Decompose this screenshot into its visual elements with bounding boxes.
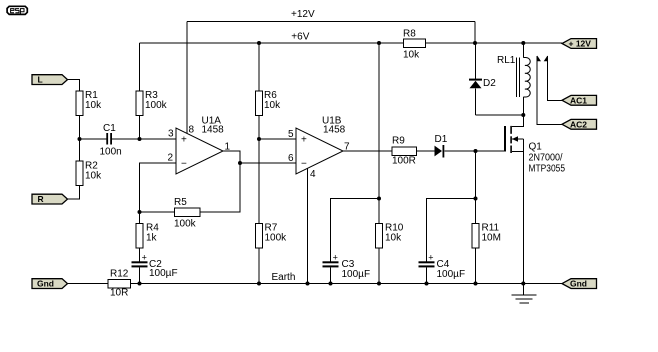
svg-text:10k: 10k — [385, 233, 402, 244]
junction rail R7 — [257, 282, 261, 286]
wire L to R1 top — [68, 80, 80, 92]
svg-text:1458: 1458 — [202, 125, 225, 136]
resistor R2 — [76, 161, 102, 186]
svg-text:4: 4 — [310, 169, 316, 180]
svg-text:R5: R5 — [174, 197, 187, 208]
wire R1 bottom to input node — [79, 116, 81, 140]
junction pin3 node C1/R3 — [138, 137, 142, 141]
junction rail R10 — [377, 282, 381, 286]
wire R11 node to R11 top — [475, 199, 477, 224]
junction C4/R11 — [474, 197, 478, 201]
capacitor C4 — [419, 199, 476, 281]
wire C2 bottom to ground rail — [139, 267, 141, 283]
svg-text:+: + — [428, 253, 433, 263]
wire U1A pin8 supply feed — [186, 22, 188, 134]
junction pin5/R6/R7 — [257, 137, 261, 141]
wire D1 cathode to gate node — [444, 150, 475, 152]
wire pin3 node to U1A — [140, 138, 177, 140]
wire +12V drop to R8 right node — [474, 22, 476, 44]
svg-text:+: + — [142, 253, 147, 263]
svg-text:100µF: 100µF — [149, 268, 178, 279]
wire R8 right lead to +12V node — [426, 42, 476, 44]
op-amp U1B — [296, 116, 346, 175]
junction U1A out/pin6 — [238, 161, 242, 165]
svg-text:+6V: +6V — [291, 32, 309, 43]
wire R6 bottom to pin5 node — [258, 116, 260, 140]
resistor R9 — [392, 136, 417, 167]
resistor R6 — [256, 90, 282, 116]
connector Gnd right — [562, 279, 597, 289]
wire ground rail main — [131, 283, 563, 285]
diode D2 — [469, 43, 496, 115]
wire +6V to R6 top — [258, 43, 260, 91]
connector +12V right — [562, 39, 597, 49]
wire R7 bottom to ground rail — [258, 248, 260, 284]
svg-text:100R: 100R — [392, 156, 416, 167]
wire output node to U1B pin6 — [240, 162, 296, 164]
svg-text:+: + — [301, 135, 307, 146]
wire feedback node down to R4 — [139, 212, 141, 224]
wire input node to R2 top — [79, 139, 81, 161]
svg-text:8: 8 — [189, 125, 195, 136]
wire +12V node to +12V connector — [475, 42, 562, 44]
svg-text:D1: D1 — [435, 134, 448, 145]
junction D1/gate/R11 — [474, 149, 478, 153]
wire ground rail left (Gnd to R12) — [68, 283, 109, 285]
capacitor C1 — [100, 123, 122, 158]
wire gate node to Q1 gate — [476, 150, 505, 152]
resistor R8 — [403, 29, 426, 61]
junction rail C2 — [138, 282, 142, 286]
wire R11 bottom to ground rail — [475, 248, 477, 284]
wire R10 bottom to ground rail — [378, 248, 380, 284]
svg-text:2: 2 — [168, 153, 174, 164]
relay RL1 coil — [497, 43, 530, 115]
svg-text:−: − — [181, 159, 187, 170]
svg-text:10k: 10k — [85, 100, 102, 111]
diode D1 — [435, 134, 448, 158]
svg-text:10k: 10k — [403, 50, 420, 61]
connector AC1 — [562, 95, 597, 105]
resistor R5 — [174, 197, 200, 230]
wire Q1 source down to ground rail — [522, 139, 524, 284]
svg-text:L: L — [38, 75, 43, 85]
svg-text:100n: 100n — [100, 147, 122, 158]
transistor Q1 MOSFET — [504, 115, 565, 175]
wire U1B pin4 to ground rail — [307, 169, 309, 284]
svg-text:100k: 100k — [145, 100, 168, 111]
resistor R1 — [76, 90, 102, 116]
junction input node L/R1/R2/C1 — [78, 137, 82, 141]
resistor R12 — [108, 269, 131, 299]
svg-text:R: R — [38, 194, 44, 204]
svg-text:10M: 10M — [482, 233, 501, 244]
resistor R10 — [376, 223, 404, 249]
wire U1B output to R9 — [343, 150, 392, 152]
svg-text:D2: D2 — [483, 78, 496, 89]
wire R2 bottom to R connector — [68, 186, 80, 200]
svg-text:+: + — [333, 253, 338, 263]
capacitor C2 — [132, 253, 178, 280]
resistor R7 — [256, 223, 288, 249]
svg-text:R12: R12 — [110, 269, 129, 280]
svg-text:AC1: AC1 — [570, 95, 587, 105]
svg-text:100k: 100k — [265, 233, 288, 244]
svg-text:+ 12V: + 12V — [569, 39, 592, 49]
svg-text:1458: 1458 — [323, 125, 346, 136]
wire input node to C1 left — [80, 138, 107, 140]
op-amp U1A — [176, 116, 224, 175]
wire gate node down to R11/C4 node — [475, 151, 477, 199]
svg-text:RL1: RL1 — [497, 55, 516, 66]
resistor R4 — [136, 223, 159, 249]
svg-text:AC2: AC2 — [570, 119, 587, 129]
wire U1A pin2 feedback — [140, 163, 177, 212]
wire R10 node to R10 top — [378, 199, 380, 224]
svg-text:Gnd: Gnd — [570, 279, 587, 289]
svg-text:10k: 10k — [85, 171, 102, 182]
capacitor C3 — [323, 199, 380, 281]
svg-text:R8: R8 — [403, 29, 416, 40]
wire C4 bottom to ground rail — [426, 267, 428, 283]
junction feedback R4/R5/pin2 — [138, 210, 142, 214]
svg-text:C1: C1 — [103, 123, 116, 134]
svg-text:5: 5 — [288, 129, 294, 140]
wire C3 bottom to ground rail — [330, 267, 332, 283]
svg-text:3: 3 — [168, 129, 174, 140]
relay contact arm to AC2 — [537, 56, 562, 125]
wire C1 right to pin3 node — [112, 138, 140, 140]
svg-text:10R: 10R — [110, 288, 128, 299]
junction rail C3 — [329, 282, 333, 286]
svg-text:−: − — [301, 159, 307, 170]
svg-text:Earth: Earth — [272, 272, 296, 283]
svg-text:100µF: 100µF — [437, 269, 466, 280]
svg-text:1k: 1k — [146, 233, 158, 244]
ESP logo — [7, 6, 27, 15]
junction +6V/R6 — [257, 41, 261, 45]
junction rail R11 — [474, 282, 478, 286]
svg-text:+: + — [181, 135, 187, 146]
svg-text:R9: R9 — [392, 136, 405, 147]
ground earth symbol — [512, 284, 537, 304]
connector R — [32, 194, 68, 204]
junction D2/relay/drain — [521, 113, 525, 117]
svg-text:Q1: Q1 — [529, 142, 543, 153]
connector AC2 — [562, 119, 597, 129]
wire D2 bottom to relay/drain node — [476, 114, 524, 116]
svg-text:6: 6 — [288, 153, 294, 164]
wire R3 bottom to pin3 node — [139, 116, 141, 140]
wire +12V top rail — [187, 21, 475, 23]
junction C3/R10 — [377, 197, 381, 201]
svg-text:Gnd: Gnd — [37, 279, 54, 289]
connector Gnd left — [32, 279, 68, 289]
wire +6V corner down to R3 — [139, 43, 141, 91]
resistor R3 — [136, 90, 168, 116]
junction rail pin4 — [306, 282, 310, 286]
junction rail Q1 source/earth — [521, 282, 525, 286]
wire R9 to D1 — [417, 150, 435, 152]
connector L — [32, 75, 68, 85]
svg-text:MTP3055: MTP3055 — [529, 164, 566, 175]
junction +12V/relay top — [521, 41, 525, 45]
junction rail C4 — [425, 282, 429, 286]
wire pin5 node to U1B — [259, 138, 296, 140]
resistor R11 — [472, 223, 501, 249]
wire +6V node down to R10/C3 node — [378, 43, 380, 199]
junction +12V/R8/D2 — [473, 41, 477, 45]
wire R4 bottom to C2 — [139, 248, 141, 261]
svg-text:+12V: +12V — [291, 9, 315, 20]
wire +6V rail — [140, 42, 404, 44]
svg-text:2N7000/: 2N7000/ — [529, 153, 563, 164]
svg-text:10k: 10k — [264, 100, 281, 111]
svg-text:100k: 100k — [174, 219, 197, 230]
relay contact arm to AC1 — [544, 56, 562, 101]
wire R5 left to feedback node — [140, 211, 175, 213]
wire pin5 node down to R7 — [258, 139, 260, 224]
junction +6V/R10 — [377, 41, 381, 45]
svg-text:100µF: 100µF — [342, 269, 371, 280]
wire U1A output — [200, 151, 240, 212]
